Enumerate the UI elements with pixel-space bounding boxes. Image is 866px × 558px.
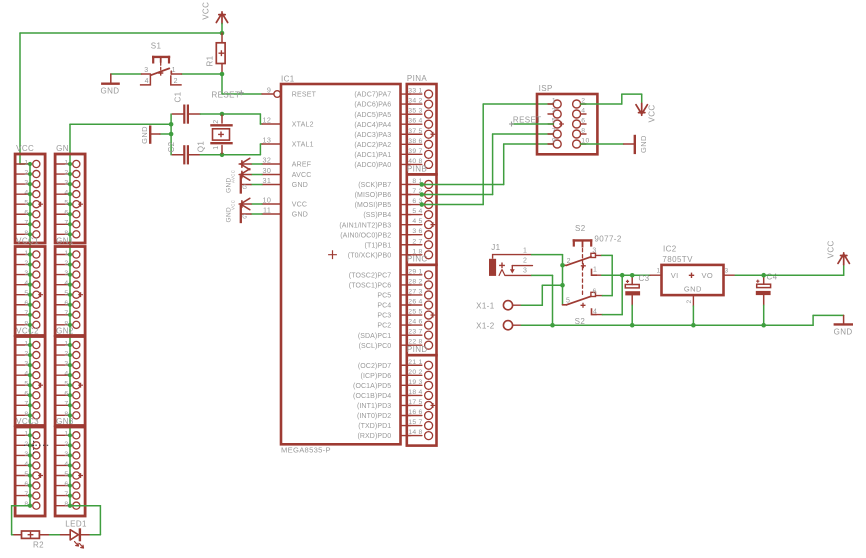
node junction column A pin8 xyxy=(28,504,32,508)
svg-text:7: 7 xyxy=(419,238,423,245)
svg-text:XTAL1: XTAL1 xyxy=(292,142,314,149)
GN2 pin 8 xyxy=(55,414,70,416)
svg-text:6: 6 xyxy=(419,228,423,235)
svg-text:S2: S2 xyxy=(575,317,586,326)
VCC1 pin 8 xyxy=(15,324,30,326)
svg-text:2: 2 xyxy=(419,98,423,105)
svg-text:1: 1 xyxy=(552,98,556,105)
PINC origin cross xyxy=(431,313,436,318)
IC2 pin 1 VI xyxy=(650,274,661,276)
GN2 pin 4 xyxy=(55,374,70,376)
wire S2 pin6 to tie xyxy=(602,295,612,297)
svg-text:(SDA)PC1: (SDA)PC1 xyxy=(358,333,391,340)
node junction S2 pin2 xyxy=(560,263,565,268)
svg-text:5: 5 xyxy=(419,309,423,316)
svg-text:ISP: ISP xyxy=(539,84,553,93)
svg-text:IC2: IC2 xyxy=(663,245,677,254)
svg-text:4: 4 xyxy=(419,389,423,396)
node junction GND symbol xyxy=(169,132,174,137)
svg-text:2: 2 xyxy=(686,299,693,303)
node junction C4 bottom / bus xyxy=(761,323,766,328)
node junction PINB2 xyxy=(420,192,425,197)
IC1 pin 8 (SCK)PB7 xyxy=(401,183,411,185)
svg-text:(AIN1/INT2)PB3: (AIN1/INT2)PB3 xyxy=(339,222,391,229)
GN origin cross xyxy=(78,202,83,207)
svg-text:7: 7 xyxy=(419,148,423,155)
VCC1 pin 7 xyxy=(15,314,30,316)
svg-text:10: 10 xyxy=(263,196,272,205)
svg-text:1: 1 xyxy=(64,431,68,438)
GN pin 2 xyxy=(55,173,70,175)
svg-text:VCC1: VCC1 xyxy=(16,237,39,246)
svg-text:7805TV: 7805TV xyxy=(662,255,693,264)
VCC2 origin cross xyxy=(38,383,43,388)
svg-text:(ICP)PD6: (ICP)PD6 xyxy=(361,373,392,380)
power symbol arrow on AREF pin 32 xyxy=(252,163,263,165)
VCC pin 7 xyxy=(15,223,30,225)
GN1 pin 6 xyxy=(55,304,70,306)
svg-text:4: 4 xyxy=(64,190,68,197)
PIND pin 5 xyxy=(407,404,422,406)
svg-text:GN: GN xyxy=(56,144,69,153)
PINA pin 7 xyxy=(407,153,422,155)
svg-text:3: 3 xyxy=(419,288,423,295)
svg-text:VCC: VCC xyxy=(648,104,657,122)
VCC3 pin 2 xyxy=(15,444,30,446)
GN3 pin 7 xyxy=(55,495,70,497)
pin header PIND body xyxy=(407,355,437,445)
wire VCC rail bottom to R2 xyxy=(12,505,30,507)
svg-text:6: 6 xyxy=(24,210,28,217)
wire MOSI net: PINB pin3 to ISP pin1 xyxy=(422,204,483,206)
IC1 pin 12 XTAL2 xyxy=(262,123,280,125)
power symbol VCC arrow on pin 10 xyxy=(252,203,263,205)
power symbol VCC (right) xyxy=(838,253,849,265)
svg-text:X1-1: X1-1 xyxy=(476,301,495,310)
GN2 pin 2 xyxy=(55,354,70,356)
svg-text:AVCC: AVCC xyxy=(292,172,312,179)
svg-text:(TOSC1)PC6: (TOSC1)PC6 xyxy=(349,283,392,290)
pin header GN1 body xyxy=(55,247,85,336)
svg-text:(ADC0)PA0: (ADC0)PA0 xyxy=(354,162,391,169)
svg-text:3: 3 xyxy=(552,108,556,115)
VCC1 pin 1 xyxy=(15,254,30,256)
svg-text:5: 5 xyxy=(419,399,423,406)
wire GND bus to GND symbol (right) xyxy=(812,315,814,325)
svg-text:6: 6 xyxy=(24,391,28,398)
svg-text:5: 5 xyxy=(24,471,28,478)
svg-text:(SS)PB4: (SS)PB4 xyxy=(363,212,391,219)
wire C2 to crystal bottom xyxy=(200,154,222,156)
wire C3 to GND bus xyxy=(631,305,633,325)
PIND pin 4 xyxy=(407,394,422,396)
PINB pin 5 xyxy=(407,224,422,226)
svg-text:GN3: GN3 xyxy=(56,417,74,426)
VCC1 pin 3 xyxy=(15,274,30,276)
svg-text:PIND: PIND xyxy=(407,345,428,354)
svg-text:31: 31 xyxy=(263,176,272,185)
wire vertical C1-C2 left xyxy=(170,114,172,155)
GN pin 6 xyxy=(55,213,70,215)
GN3 pin 5 xyxy=(55,475,70,477)
PINB pin 8 xyxy=(407,254,422,256)
svg-text:4: 4 xyxy=(593,309,597,316)
GN2 pin 7 xyxy=(55,404,70,406)
IC1 pin 6 (MOSI)PB5 xyxy=(401,204,411,206)
wire LED1 to GND rail bottom xyxy=(90,534,100,536)
pin header PINA body xyxy=(407,84,437,174)
PINC pin 1 xyxy=(407,274,422,276)
power symbol AVCC arrow on pin 30 xyxy=(252,174,263,176)
GN1 pin 5 xyxy=(55,294,70,296)
ISP pin 1 xyxy=(548,103,553,105)
svg-text:5: 5 xyxy=(566,298,570,305)
VCC2 pin 7 xyxy=(15,404,30,406)
svg-text:(MISO)PB6: (MISO)PB6 xyxy=(355,192,392,199)
svg-text:2: 2 xyxy=(419,369,423,376)
GN2 pin 1 xyxy=(55,344,70,346)
svg-text:(AIN0/OC0)PB2: (AIN0/OC0)PB2 xyxy=(340,232,391,239)
svg-text:MEGA8535-P: MEGA8535-P xyxy=(281,445,331,454)
svg-text:(RXD)PD0: (RXD)PD0 xyxy=(357,433,391,440)
GN pin 7 xyxy=(55,223,70,225)
pin header PINB body xyxy=(407,174,437,264)
PINA origin cross xyxy=(431,132,436,137)
ground symbol GND (bottom right) xyxy=(843,315,845,324)
svg-text:4: 4 xyxy=(64,461,68,468)
svg-text:VCC: VCC xyxy=(292,202,307,209)
svg-text:GND: GND xyxy=(639,135,648,153)
IC1 pin 15 (TXD)PD1 xyxy=(401,425,411,427)
svg-text:(OC1B)PD4: (OC1B)PD4 xyxy=(353,393,391,400)
GN3 pin 6 xyxy=(55,485,70,487)
ISP pin 3 xyxy=(548,113,553,115)
VCC3 pin 7 xyxy=(15,495,30,497)
svg-text:VI: VI xyxy=(671,271,679,280)
svg-text:1: 1 xyxy=(64,250,68,257)
svg-text:5: 5 xyxy=(64,471,68,478)
svg-text:2: 2 xyxy=(64,260,68,267)
svg-text:7: 7 xyxy=(64,401,68,408)
IC1 pin 39 (ADC1)PA1 xyxy=(401,153,411,155)
svg-text:1: 1 xyxy=(419,88,423,95)
node junction crystal top xyxy=(220,112,225,117)
VCC1 pin 5 xyxy=(15,294,30,296)
VCC2 pin 1 xyxy=(15,344,30,346)
VCC3 origin cross xyxy=(38,473,43,478)
ISP pin 5 xyxy=(548,123,553,125)
PINB origin cross xyxy=(431,222,436,227)
svg-text:7: 7 xyxy=(419,329,423,336)
IC1 pin 20 (ICP)PD6 xyxy=(401,374,411,376)
VCC pin 1 xyxy=(15,163,30,165)
op-amp/IC U1 IC1 MEGA8535-P body xyxy=(281,84,401,444)
node junction VCC/R1 xyxy=(220,31,225,36)
svg-text:1: 1 xyxy=(24,431,28,438)
VCC3 pin 1 xyxy=(15,434,30,436)
svg-text:(ADC7)PA7: (ADC7)PA7 xyxy=(354,92,391,99)
svg-text:6: 6 xyxy=(24,300,28,307)
svg-text:1: 1 xyxy=(213,146,220,150)
svg-text:3: 3 xyxy=(24,451,28,458)
GN1 pin 8 xyxy=(55,324,70,326)
wire S1 pin1 to R1 junction xyxy=(182,73,223,75)
voltage regulator IC2 7805TV xyxy=(662,265,724,295)
GN1 pin 4 xyxy=(55,284,70,286)
IC1 pin 36 (ADC4)PA4 xyxy=(401,123,411,125)
svg-text:1: 1 xyxy=(523,247,527,254)
IC1 pin 23 (SDA)PC1 xyxy=(401,334,411,336)
svg-text:PINA: PINA xyxy=(407,74,428,83)
IC1 pin 37 (ADC3)PA3 xyxy=(401,133,411,135)
svg-text:7: 7 xyxy=(64,310,68,317)
GN1 origin cross xyxy=(78,292,83,297)
pin header GN body xyxy=(55,154,85,243)
wire S2 pin4 to VI net xyxy=(602,314,622,316)
PIND pin 2 xyxy=(407,374,422,376)
IC1 pin 9 RESET xyxy=(262,93,274,95)
VCC2 pin 6 xyxy=(15,394,30,396)
node junction C3 bottom / bus xyxy=(630,323,635,328)
svg-text:3: 3 xyxy=(24,270,28,277)
GN2 pin 5 xyxy=(55,384,70,386)
svg-text:(SCK)PB7: (SCK)PB7 xyxy=(358,182,391,189)
node junction crystal bottom xyxy=(220,153,225,158)
GN3 pin 1 xyxy=(55,434,70,436)
IC1 pin 4 (AIN1/INT2)PB3 xyxy=(401,224,411,226)
svg-text:PC3: PC3 xyxy=(377,313,391,320)
IC1 pin 35 (ADC5)PA5 xyxy=(401,113,411,115)
IC1 pin 26 PC4 xyxy=(401,304,411,306)
node junction X1-1 net xyxy=(560,283,565,288)
pin header GN3 body xyxy=(55,427,85,516)
svg-text:3: 3 xyxy=(419,379,423,386)
node junction R1/S1/RESET xyxy=(220,72,225,77)
svg-text:VCC: VCC xyxy=(16,144,34,153)
IC1 pin 33 (ADC7)PA7 xyxy=(401,93,411,95)
svg-text:GN2: GN2 xyxy=(56,327,74,336)
PINB pin 4 xyxy=(407,214,422,216)
GN1 pin 2 xyxy=(55,264,70,266)
node junction PINB1 xyxy=(420,182,425,187)
svg-text:(ADC1)PA1: (ADC1)PA1 xyxy=(354,152,391,159)
ground symbol GND (near ISP, rotated) xyxy=(624,143,634,145)
GN2 pin 3 xyxy=(55,364,70,366)
VCC3 pin 5 xyxy=(15,475,30,477)
ISP pin 9 xyxy=(548,143,553,145)
IC1 origin cross xyxy=(328,250,337,259)
PINB pin 2 xyxy=(407,194,422,196)
IC1 pin 21 (OC2)PD7 xyxy=(401,364,411,366)
wire to S2 pin5 xyxy=(562,285,564,305)
GN pin 1 xyxy=(55,163,70,165)
svg-text:3: 3 xyxy=(64,451,68,458)
IC1 pin 24 PC2 xyxy=(401,324,411,326)
svg-text:S2: S2 xyxy=(575,224,586,233)
GN1 pin 1 xyxy=(55,254,70,256)
svg-text:PC4: PC4 xyxy=(377,303,391,310)
VCC3 pin 4 xyxy=(15,464,30,466)
svg-text:(T1)PB1: (T1)PB1 xyxy=(365,242,392,249)
svg-text:5: 5 xyxy=(24,200,28,207)
svg-text:(ADC2)PA2: (ADC2)PA2 xyxy=(354,142,391,149)
svg-text:3: 3 xyxy=(64,361,68,368)
node junction column B pin8 xyxy=(68,504,72,508)
IC1 pin 34 (ADC6)PA6 xyxy=(401,103,411,105)
wire X1-1 to S2 pole net xyxy=(521,304,542,306)
power symbol VCC (near ISP, pointing down) xyxy=(636,103,647,115)
PINA pin 8 xyxy=(407,163,422,165)
svg-text:(INT0)PD2: (INT0)PD2 xyxy=(357,413,391,420)
VCC pin 4 xyxy=(15,193,30,195)
IC1 pin 5 (SS)PB4 xyxy=(401,214,411,216)
node junction S2 pin4 / VI net xyxy=(620,273,625,278)
IC1 pin 3 (AIN0/OC0)PB2 xyxy=(401,234,411,236)
svg-text:5: 5 xyxy=(24,381,28,388)
svg-text:(OC1A)PD5: (OC1A)PD5 xyxy=(353,383,391,390)
PIND pin 7 xyxy=(407,425,422,427)
svg-text:2: 2 xyxy=(419,278,423,285)
node junction IC2 GND / bus xyxy=(691,323,696,328)
svg-text:(T0/XCK)PB0: (T0/XCK)PB0 xyxy=(348,252,392,259)
svg-text:(TOSC2)PC7: (TOSC2)PC7 xyxy=(349,272,392,279)
capacitor C2 xyxy=(172,154,183,156)
VCC2 pin 3 xyxy=(15,364,30,366)
svg-text:PC5: PC5 xyxy=(377,293,391,300)
svg-text:G: G xyxy=(242,215,247,221)
svg-text:GND: GND xyxy=(292,212,308,219)
svg-text:4: 4 xyxy=(64,371,68,378)
pin header PINC body xyxy=(407,265,437,355)
svg-text:RESET: RESET xyxy=(292,92,317,99)
svg-text:2: 2 xyxy=(64,169,68,176)
svg-text:7: 7 xyxy=(64,491,68,498)
svg-text:7: 7 xyxy=(64,220,68,227)
svg-text:1: 1 xyxy=(419,359,423,366)
svg-text:32: 32 xyxy=(263,156,272,165)
svg-text:9: 9 xyxy=(267,86,271,95)
ground symbol GND on pin 11 xyxy=(251,213,262,215)
svg-text:3: 3 xyxy=(24,361,28,368)
svg-text:2: 2 xyxy=(24,169,28,176)
svg-text:AREF: AREF xyxy=(292,162,311,169)
svg-text:4: 4 xyxy=(64,280,68,287)
pin header VCC1 body xyxy=(15,247,45,336)
svg-text:LED1: LED1 xyxy=(65,519,87,528)
wire GND rail vertical (column B) xyxy=(69,124,71,505)
VCC3 pin 3 xyxy=(15,454,30,456)
PIND pin 1 xyxy=(407,364,422,366)
svg-text:11: 11 xyxy=(263,206,271,215)
svg-text:VCC: VCC xyxy=(201,2,210,20)
svg-text:4: 4 xyxy=(581,108,585,115)
VCC pin 6 xyxy=(15,213,30,215)
GN2 pin 6 xyxy=(55,394,70,396)
wire VCC net: R1 top to left rail xyxy=(221,24,223,34)
wire GND bus xyxy=(521,324,813,326)
GN1 pin 3 xyxy=(55,274,70,276)
VCC2 pin 2 xyxy=(15,354,30,356)
IC1 pin 2 (T1)PB1 xyxy=(401,244,411,246)
svg-text:2: 2 xyxy=(64,441,68,448)
ISP origin cross xyxy=(559,122,564,127)
svg-text:1: 1 xyxy=(656,268,660,275)
svg-text:30: 30 xyxy=(263,166,272,175)
svg-text:6: 6 xyxy=(581,118,585,125)
wire SCK net: PINB pin1 to ISP pin9 xyxy=(422,183,504,185)
PINC pin 3 xyxy=(407,294,422,296)
IC1 pin 11 GND xyxy=(262,213,280,215)
PINA pin 6 xyxy=(407,143,422,145)
svg-text:2: 2 xyxy=(24,350,28,357)
svg-text:6: 6 xyxy=(593,288,597,295)
GN2 origin cross xyxy=(78,383,83,388)
svg-text:C4: C4 xyxy=(767,273,778,282)
svg-text:2: 2 xyxy=(174,78,178,85)
GN pin 4 xyxy=(55,193,70,195)
svg-text:1: 1 xyxy=(172,67,176,74)
svg-text:R1: R1 xyxy=(205,55,214,66)
wire GND rail to capacitor junction xyxy=(70,123,171,125)
wire S1 pin3 to GND xyxy=(111,73,142,75)
cursor crosshair mark xyxy=(24,444,51,446)
svg-text:(ADC6)PA6: (ADC6)PA6 xyxy=(354,102,391,109)
svg-text:3: 3 xyxy=(64,270,68,277)
svg-text:7: 7 xyxy=(24,310,28,317)
svg-text:GN1: GN1 xyxy=(56,237,74,246)
svg-text:1: 1 xyxy=(64,340,68,347)
pin header VCC body xyxy=(15,154,45,243)
VCC2 pin 4 xyxy=(15,374,30,376)
node junction J1 pin3 / GND bus xyxy=(550,323,555,328)
IC1 pin 10 VCC xyxy=(262,203,280,205)
wire / net label RESET (to ISP pin5) xyxy=(512,123,554,125)
svg-text:6: 6 xyxy=(419,138,423,145)
node junction GND rail xyxy=(169,122,174,127)
svg-text:2: 2 xyxy=(523,258,527,265)
svg-text:2: 2 xyxy=(567,258,571,265)
svg-text:1: 1 xyxy=(24,250,28,257)
PINA pin 3 xyxy=(407,113,422,115)
svg-text:5: 5 xyxy=(419,218,423,225)
svg-text:7: 7 xyxy=(24,220,28,227)
wire S2 pin2 down to X1-1 junction xyxy=(562,265,564,285)
svg-text:2: 2 xyxy=(24,441,28,448)
svg-text:3: 3 xyxy=(523,267,527,274)
IC1 pin 28 (TOSC1)PC6 xyxy=(401,284,411,286)
PIND pin 6 xyxy=(407,415,422,417)
GN3 pin 2 xyxy=(55,444,70,446)
resistor R2 xyxy=(14,534,22,536)
wire ISP pin10 to GND xyxy=(581,143,624,145)
IC1 pin 22 (SCL)PC0 xyxy=(401,344,411,346)
VCC3 pin 6 xyxy=(15,485,30,487)
IC1 pin 18 (OC1B)PD4 xyxy=(401,394,411,396)
pin header VCC2 body xyxy=(15,337,45,426)
svg-text:GND: GND xyxy=(226,207,233,223)
svg-text:XTAL2: XTAL2 xyxy=(292,122,314,129)
svg-text:8: 8 xyxy=(581,128,585,135)
svg-text:8: 8 xyxy=(419,429,423,436)
svg-text:GND: GND xyxy=(292,182,308,189)
IC1 pin 19 (OC1A)PD5 xyxy=(401,384,411,386)
svg-text:4: 4 xyxy=(24,190,28,197)
svg-text:4: 4 xyxy=(24,371,28,378)
GN pin 3 xyxy=(55,183,70,185)
svg-text:(SCL)PC0: (SCL)PC0 xyxy=(359,343,392,350)
svg-text:J1: J1 xyxy=(491,243,500,252)
svg-text:5: 5 xyxy=(64,290,68,297)
